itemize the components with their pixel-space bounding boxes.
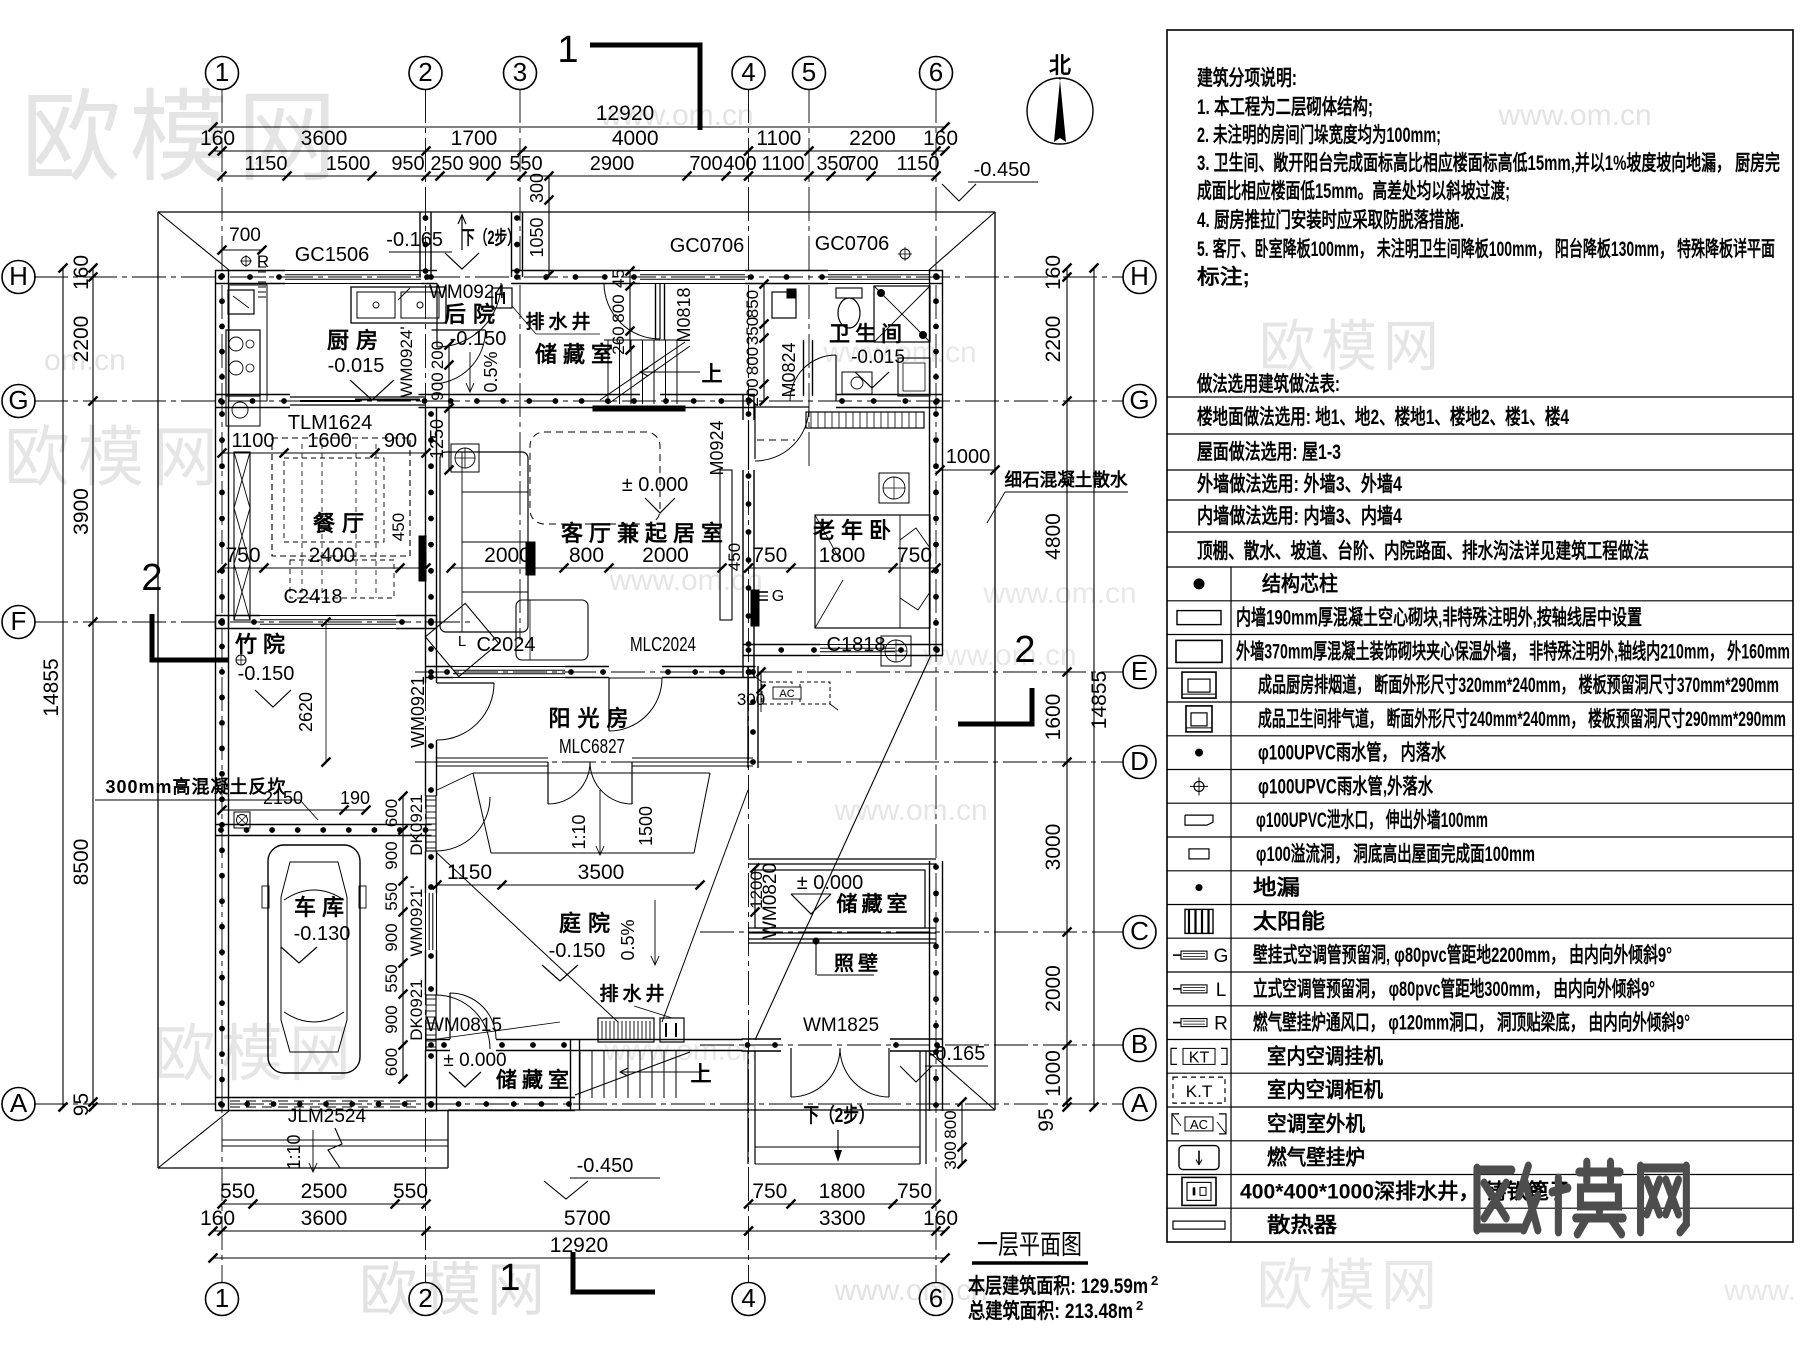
svg-text:AC: AC [779, 688, 794, 700]
svg-text:-0.150: -0.150 [450, 328, 507, 350]
svg-text:上: 上 [702, 363, 723, 386]
bedroom closet dash [757, 439, 795, 441]
corridor small cabinet box [772, 292, 796, 318]
svg-text:750: 750 [225, 544, 260, 567]
kitchen level triangle [350, 380, 394, 400]
legend panel border [1167, 30, 1793, 1242]
svg-text:排水井: 排水井 [525, 310, 594, 333]
G symbol at x4 wall [752, 591, 768, 593]
big watermark 欧模网 bottom right (custom strokes) [1477, 1162, 1686, 1234]
svg-text:下（2步）: 下（2步） [804, 1104, 875, 1127]
black column corridor top [787, 289, 796, 298]
axis bubble 6 top [920, 57, 953, 90]
dining table dashed [272, 438, 410, 556]
svg-text:1800: 1800 [819, 1180, 866, 1203]
axis line C [700, 931, 1123, 933]
axis bubble B right [1123, 1029, 1156, 1062]
svg-text:1: 1 [215, 57, 229, 87]
armchair south [516, 600, 588, 660]
svg-text:600: 600 [382, 1048, 401, 1076]
screen wall zhaobi leader [813, 938, 820, 945]
axis bubble F left [2, 606, 35, 639]
svg-text:C1818: C1818 [827, 634, 886, 656]
svg-text:300: 300 [527, 173, 547, 203]
svg-text:750: 750 [752, 544, 787, 567]
legend row 17: ACs [1167, 1140, 1793, 1142]
svg-text:160: 160 [923, 1207, 958, 1230]
axis bubble H left [2, 261, 35, 294]
svg-text:850: 850 [743, 290, 762, 318]
svg-text:2: 2 [1014, 629, 1035, 671]
svg-text:F: F [11, 606, 27, 636]
svg-text:700: 700 [229, 225, 261, 246]
wall stub black x4 south [751, 590, 759, 626]
svg-text:750: 750 [897, 544, 932, 567]
bath door wall piece [803, 340, 805, 396]
roof eave outline [158, 211, 995, 213]
drain appliance box [492, 288, 512, 308]
axis bubble E right [1123, 656, 1156, 689]
dim chain bottom row1 right [749, 1203, 937, 1205]
wall dining south F [215, 615, 260, 617]
legend row 5: flue2 [1167, 735, 1793, 737]
wall top H backyard seg [511, 270, 640, 272]
axis line 1 [221, 89, 223, 1283]
wall top H kitchen segment [215, 270, 285, 272]
svg-text:1800: 1800 [819, 544, 866, 567]
svg-text:欧模网: 欧模网 [4, 420, 226, 494]
svg-text:做法选用建筑做法表:: 做法选用建筑做法表: [1196, 372, 1340, 396]
dim chain left segments [92, 268, 94, 1107]
svg-text:DK0921: DK0921 [407, 794, 426, 855]
svg-text:1100: 1100 [761, 153, 804, 175]
axis line 2 [425, 89, 427, 1283]
svg-text:3900: 3900 [70, 488, 93, 535]
svg-text:14855: 14855 [1088, 671, 1111, 729]
svg-text:客厅兼起居室: 客厅兼起居室 [561, 521, 729, 546]
window C1818 bedroom [820, 644, 895, 646]
svg-text:160: 160 [1042, 255, 1065, 290]
small room divider right of storage [655, 283, 657, 340]
svg-text:0.5%: 0.5% [481, 351, 501, 392]
entry corridor west wall [419, 212, 421, 277]
svg-text:www.om.cn: www.om.cn [1497, 99, 1651, 132]
kitchen lower cabinet [226, 396, 260, 426]
svg-text:DK0921: DK0921 [407, 979, 426, 1040]
axis line A [34, 1103, 1123, 1105]
svg-text:MLC2024: MLC2024 [630, 634, 696, 656]
dim 300 below G symbol [760, 672, 762, 689]
svg-text:550: 550 [220, 1180, 255, 1203]
svg-text:900: 900 [382, 841, 401, 869]
svg-text:550: 550 [393, 1180, 428, 1203]
svg-text:1600: 1600 [1042, 694, 1065, 741]
svg-text:2150: 2150 [263, 788, 303, 808]
stair west wall bottom [570, 1039, 572, 1110]
svg-text:2000: 2000 [484, 544, 531, 567]
axis bubble 4 bottom [732, 1283, 765, 1316]
garage door dashed JLM2524 [230, 1100, 420, 1102]
svg-text:G: G [772, 588, 784, 605]
svg-text:φ100UPVC泄水口， 伸出外墙100mm: φ100UPVC泄水口， 伸出外墙100mm [1256, 808, 1488, 832]
svg-text:5. 客厅、卧室降板100mm， 未注明卫生间降板100mm: 5. 客厅、卧室降板100mm， 未注明卫生间降板100mm， 阳台降板130m… [1197, 237, 1775, 261]
dim chain top overall 12920 [213, 126, 945, 128]
legend row 9: rect3 [1167, 870, 1793, 872]
svg-text:C2418: C2418 [284, 586, 343, 608]
axis bubble H right [1123, 261, 1156, 294]
mid dim chain y568 [222, 567, 426, 569]
door M0924 living arc [755, 406, 809, 408]
svg-text:楼地面做法选用: 地1、地2、楼地1、楼地2、楼1、楼4: 楼地面做法选用: 地1、地2、楼地1、楼地2、楼1、楼4 [1197, 405, 1569, 429]
legend row 8: scupper [1167, 836, 1793, 838]
svg-text:R: R [1214, 1014, 1228, 1035]
svg-text:顶棚、散水、坡道、台阶、内院路面、排水沟法详见建筑工程做法: 顶棚、散水、坡道、台阶、内院路面、排水沟法详见建筑工程做法 [1197, 539, 1649, 563]
svg-text:壁挂式空调管预留洞, φ80pvc管距地2200mm， 由内: 壁挂式空调管预留洞, φ80pvc管距地2200mm， 由内向外倾斜9° [1253, 943, 1672, 967]
svg-text:400: 400 [723, 153, 756, 175]
svg-text:± 0.000: ± 0.000 [797, 872, 864, 894]
wash basin [842, 372, 872, 394]
vert dim 200 900 1250 at x449 [448, 345, 450, 408]
svg-text:2200: 2200 [70, 316, 93, 363]
axis bubble 6 bottom [920, 1283, 953, 1316]
svg-text:储藏室: 储藏室 [837, 892, 912, 916]
svg-text:排水井: 排水井 [599, 982, 668, 1005]
svg-text:1000: 1000 [1042, 1050, 1065, 1097]
bedroom south wall y650 [743, 644, 821, 646]
bottom storage north wall y1045 [425, 1039, 450, 1041]
dim chain right overall 14855 [1093, 268, 1095, 1107]
svg-text:欧模网: 欧模网 [1257, 1254, 1443, 1317]
svg-text:-0.165: -0.165 [386, 229, 443, 251]
svg-text:3: 3 [513, 57, 527, 87]
garage vertical dim chain west of wall [402, 796, 404, 1079]
svg-text:2900: 2900 [590, 153, 635, 175]
svg-text:后院: 后院 [444, 302, 502, 327]
svg-text:A: A [10, 1088, 28, 1118]
svg-text:建筑分项说明:: 建筑分项说明: [1197, 66, 1297, 90]
kitchen under-G dims 1100 1600 900 [222, 452, 426, 454]
compass north arrow [1027, 78, 1093, 144]
svg-text:900: 900 [382, 1005, 401, 1033]
nightstand north [879, 473, 909, 503]
symbol column divider [1230, 567, 1232, 1242]
legend row 3: rect2 [1167, 667, 1793, 669]
wall x431 segment [425, 851, 427, 893]
storage room C walls (right) [748, 858, 936, 860]
courtyard drainage diagonals [437, 853, 618, 1022]
tall cabinet west dining [234, 452, 250, 620]
axis bubble 3 top [504, 57, 537, 90]
eave hip corner top-left [158, 212, 229, 270]
svg-text:1000: 1000 [946, 446, 991, 468]
svg-text:G: G [1129, 385, 1149, 415]
svg-text:2500: 2500 [301, 1180, 348, 1203]
entry porch B wall segment west [742, 1038, 782, 1040]
dim chain right segments [1066, 268, 1068, 1107]
svg-text:1500: 1500 [636, 806, 656, 846]
svg-text:2: 2 [141, 557, 162, 599]
svg-text:室内空调柜机: 室内空调柜机 [1267, 1078, 1383, 1102]
door DK0921 upper hatched leaf [426, 796, 436, 851]
legend row 14: Rsym [1167, 1039, 1793, 1041]
svg-text:4000: 4000 [612, 127, 659, 150]
axis bubble 4 top [732, 57, 765, 90]
AC units right of sunroom [762, 682, 792, 704]
svg-text:地漏: 地漏 [1253, 876, 1300, 900]
entry corridor east wall [511, 212, 513, 277]
window C2418 dining [260, 615, 396, 617]
legend row 16: KT2 [1167, 1106, 1793, 1108]
svg-text:3500: 3500 [578, 861, 625, 884]
wall G backyard-storage segment [419, 394, 641, 396]
wall living south E segment west [425, 666, 453, 668]
svg-text:庭院: 庭院 [559, 911, 617, 936]
wall x4 mid [742, 470, 744, 678]
stair bottom black bar [593, 406, 685, 411]
svg-text:2000: 2000 [1042, 965, 1065, 1012]
svg-text:L: L [458, 633, 466, 650]
svg-text:2000: 2000 [642, 544, 689, 567]
stair north wall at B [570, 1039, 743, 1041]
svg-text:6: 6 [929, 1283, 943, 1313]
svg-text:700: 700 [845, 153, 878, 175]
wall G bath segment [836, 394, 943, 396]
svg-text:2: 2 [1151, 1273, 1158, 1288]
dim chain bottom overall 12920 [213, 1257, 945, 1259]
sunroom double doors to courtyard [547, 762, 549, 804]
vert dims 300 800 bottom right [961, 1102, 963, 1164]
legend row 15: KT1 [1167, 1072, 1793, 1074]
svg-text:900: 900 [468, 153, 501, 175]
svg-text:GC1506: GC1506 [295, 244, 370, 266]
svg-text:1:10: 1:10 [284, 1134, 304, 1169]
svg-text:2. 未注明的房间门垛宽度均为100mm;: 2. 未注明的房间门垛宽度均为100mm; [1197, 123, 1441, 147]
svg-text:1500: 1500 [326, 153, 371, 175]
svg-text:www.om.cn: www.om.cn [922, 639, 1076, 672]
svg-text:M0924: M0924 [707, 420, 727, 475]
svg-text:190: 190 [340, 788, 370, 808]
coffee table dashed rug [530, 432, 660, 524]
zigzag break symbol ramp [328, 1128, 342, 1168]
legend row 7: cross [1167, 802, 1793, 804]
kitchen boiler [228, 290, 254, 314]
svg-text:空调室外机: 空调室外机 [1267, 1112, 1365, 1136]
stair break line [600, 342, 685, 400]
corridor door M0818 arc [659, 283, 661, 339]
wall left x1 garage court [215, 615, 217, 1111]
svg-text:照壁: 照壁 [834, 951, 882, 975]
dim chain top row2 [213, 150, 945, 152]
kitchen sink [351, 287, 446, 323]
svg-text:成品卫生间排气道， 断面外形尺寸240mm*240mm， 楼: 成品卫生间排气道， 断面外形尺寸240mm*240mm， 楼板预留洞尺寸290m… [1258, 707, 1786, 731]
svg-text:4800: 4800 [1042, 513, 1065, 560]
svg-text:750: 750 [897, 1180, 932, 1203]
svg-text:-0.150: -0.150 [549, 940, 606, 962]
svg-text:4: 4 [741, 57, 755, 87]
svg-text:160: 160 [200, 127, 235, 150]
svg-text:3600: 3600 [301, 1207, 348, 1230]
svg-text:800: 800 [743, 347, 762, 375]
svg-text:± 0.000: ± 0.000 [622, 474, 689, 496]
wall x431 bottom to A [425, 1050, 427, 1111]
svg-text:700: 700 [689, 153, 722, 175]
svg-text:300mm高混凝土反坎: 300mm高混凝土反坎 [105, 776, 286, 797]
svg-text:300: 300 [941, 1141, 960, 1169]
wall E mid segment [565, 666, 609, 668]
svg-text:160: 160 [923, 127, 958, 150]
svg-text:900: 900 [384, 430, 417, 452]
svg-text:2620: 2620 [296, 692, 316, 732]
svg-text:欧模网: 欧模网 [153, 1020, 357, 1089]
rain pipe symbol top right [900, 249, 910, 259]
axis bubble A left [2, 1088, 35, 1121]
wall x431 segment2 [425, 950, 427, 995]
svg-text:内墙做法选用: 内墙3、内墙4: 内墙做法选用: 内墙3、内墙4 [1197, 504, 1402, 528]
svg-text:1700: 1700 [451, 127, 498, 150]
ramp platform below sunroom [473, 772, 710, 774]
R vent symbol kitchen west [242, 257, 251, 266]
svg-text:1150: 1150 [896, 153, 939, 175]
svg-text:www.: www. [1723, 1274, 1796, 1307]
washer [898, 358, 930, 396]
svg-text:外墙370mm厚混凝土装饰砌块夹心保温外墙， 非特殊注明外,: 外墙370mm厚混凝土装饰砌块夹心保温外墙， 非特殊注明外,轴线内210mm， … [1236, 639, 1790, 663]
door WM1825 double entry arcs [790, 1048, 792, 1097]
svg-text:一层平面图: 一层平面图 [977, 1230, 1082, 1260]
svg-text:200: 200 [743, 378, 762, 406]
axis bubble C right [1123, 916, 1156, 949]
wall G kitchen segment [215, 394, 290, 396]
dim chain top row3 [222, 175, 936, 177]
svg-text:燃气壁挂炉通风口， φ120mm洞口， 洞顶贴梁底， 由内向: 燃气壁挂炉通风口， φ120mm洞口， 洞顶贴梁底， 由内向外倾斜9° [1253, 1011, 1690, 1035]
dim chain bottom row2 [213, 1230, 945, 1232]
axis line E [415, 671, 1123, 673]
svg-text:95: 95 [1035, 1108, 1058, 1131]
wall G corridor segment [660, 394, 755, 396]
wall top H seg2 [421, 270, 437, 272]
svg-text:450: 450 [389, 513, 408, 541]
svg-text:1050: 1050 [527, 217, 547, 257]
wall x431 F to door WM0921 [425, 615, 427, 683]
dining east opening stub [419, 536, 426, 581]
svg-text:www.om.cn: www.om.cn [982, 577, 1136, 610]
vert dims 45 800 260 [629, 271, 631, 350]
svg-text:H: H [9, 261, 28, 291]
svg-text:-0.130: -0.130 [294, 923, 351, 945]
svg-text:AC: AC [1190, 1117, 1208, 1132]
svg-text:上: 上 [691, 1063, 712, 1086]
bottom storage north wall seg2 [496, 1039, 570, 1041]
svg-text:WM0924': WM0924' [397, 326, 416, 397]
svg-text:1: 1 [557, 29, 578, 71]
svg-text:± 0.000: ± 0.000 [443, 1050, 506, 1071]
svg-text:-0.450: -0.450 [577, 1155, 634, 1177]
svg-text:MLC6827: MLC6827 [559, 736, 625, 758]
bottom staircase [579, 1051, 581, 1098]
svg-text:2400: 2400 [309, 544, 356, 567]
svg-text:欧模网: 欧模网 [1259, 315, 1445, 378]
kitchen stove [226, 330, 260, 396]
axis bubble 5 top [793, 57, 826, 90]
svg-text:900: 900 [428, 372, 447, 400]
svg-text:-0.150: -0.150 [238, 663, 295, 685]
svg-text:GC0706: GC0706 [815, 233, 890, 255]
svg-text:0.5%: 0.5% [618, 919, 638, 960]
axis bubble 1 bottom [206, 1283, 239, 1316]
svg-text:G: G [1214, 946, 1229, 967]
door M0824 bath arc [835, 355, 837, 401]
svg-text:1100: 1100 [756, 127, 801, 150]
svg-text:250: 250 [430, 153, 463, 175]
svg-text:14855: 14855 [40, 658, 63, 716]
axis line D [415, 761, 1123, 763]
svg-text:45: 45 [609, 269, 628, 288]
svg-text:2: 2 [418, 1283, 432, 1313]
svg-text:厨房: 厨房 [327, 328, 385, 353]
hip line right side yard [755, 655, 931, 1040]
svg-text:欧模网: 欧模网 [21, 82, 345, 194]
svg-text:阳光房: 阳光房 [548, 706, 635, 731]
small drain square yard [234, 812, 250, 828]
svg-text:WM0924: WM0924 [429, 282, 505, 303]
ramp lines below garage [222, 1139, 448, 1141]
svg-text:12920: 12920 [596, 102, 654, 125]
legend row 12: Gsym [1167, 971, 1793, 973]
svg-text:燃气壁挂炉: 燃气壁挂炉 [1267, 1146, 1365, 1170]
svg-text:K.T: K.T [1186, 1082, 1212, 1101]
bed [815, 515, 930, 628]
wall F segment east [396, 615, 437, 617]
dim chain left overall 14855 [62, 268, 64, 1107]
svg-text:下（2步）: 下（2步） [462, 226, 520, 249]
axis bubble 2 top [409, 57, 442, 90]
eave hip corner bottom-right [929, 1052, 995, 1110]
window GC0706 storage [640, 270, 745, 272]
legend row 2: rect1 [1167, 634, 1793, 636]
svg-text:2200: 2200 [849, 127, 896, 150]
entry door arc into backyard [436, 283, 438, 347]
svg-text:4: 4 [741, 1283, 755, 1313]
svg-text:3000: 3000 [1042, 824, 1065, 871]
radiator below G bath [806, 412, 924, 428]
vert dim 300+1050 at entry [548, 176, 550, 275]
svg-text:www.om.cn: www.om.cn [833, 794, 987, 827]
svg-text:160: 160 [200, 1207, 235, 1230]
wall top H seg4 [930, 270, 943, 272]
svg-text:550: 550 [509, 153, 542, 175]
svg-text:1. 本工程为二层砌体结构;: 1. 本工程为二层砌体结构; [1197, 95, 1373, 119]
wall stub black dining-living [526, 542, 535, 575]
svg-text:800: 800 [941, 1110, 960, 1138]
svg-text:1: 1 [215, 1283, 229, 1313]
svg-text:350: 350 [743, 317, 762, 345]
axis line G [34, 400, 1123, 402]
svg-text:储藏室: 储藏室 [535, 342, 619, 367]
axis bubble 1 top [206, 57, 239, 90]
svg-text:800: 800 [609, 294, 628, 322]
bottom wall A storage [425, 1097, 575, 1099]
svg-text:1100: 1100 [231, 430, 274, 452]
drain grate courtyard [598, 1018, 654, 1042]
axis line 6 [935, 89, 937, 1283]
sunroom south glazing MLC6827 [437, 757, 548, 759]
car [268, 845, 360, 1073]
bedroom south wall seg2 [895, 644, 943, 646]
window WM0921b [425, 893, 427, 950]
svg-text:B: B [1131, 1029, 1148, 1059]
sliding door TLM1624 [290, 396, 425, 398]
svg-text:H: H [1130, 261, 1149, 291]
sofa L along west wall [440, 452, 528, 632]
